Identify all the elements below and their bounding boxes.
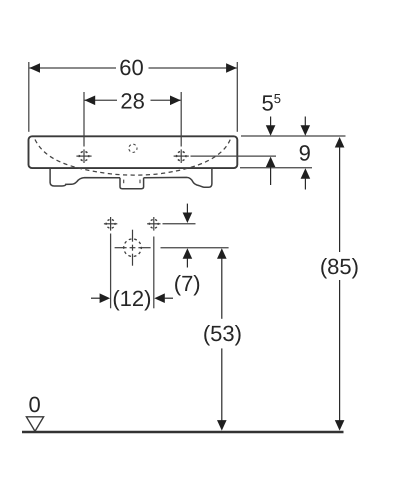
floor line — [22, 431, 344, 434]
dim 28 extension line left — [83, 92, 85, 147]
dim 60 line right segment — [149, 67, 237, 69]
datum triangle — [26, 417, 43, 431]
dim 53 line lower segment — [221, 348, 223, 421]
svg-text:28: 28 — [120, 89, 144, 114]
basin bowl dashed profile — [35, 139, 231, 175]
drain hole centerline horizontal — [115, 247, 151, 249]
dim 12 extension line left — [110, 234, 112, 309]
tap hole leader line — [191, 155, 277, 157]
svg-text:(7): (7) — [174, 271, 201, 296]
rim bottom leader line — [240, 167, 312, 169]
tap hole right crosshair — [174, 149, 189, 163]
drain leader line — [161, 247, 229, 249]
drain hole dashed circle — [124, 239, 142, 257]
basin underside left foot — [50, 169, 120, 187]
dim 28 line left segment — [85, 99, 118, 101]
drain box inner tick left — [123, 180, 125, 184]
dim 12 left arrow — [91, 293, 110, 303]
svg-text:0: 0 — [28, 392, 40, 417]
basin body outline — [29, 136, 238, 168]
dim 7 down arrow — [183, 204, 193, 223]
fixing hole left crosshair — [104, 217, 117, 231]
dim 60 extension line left — [28, 62, 30, 132]
dim 7 up arrow — [183, 248, 193, 267]
svg-text:(12): (12) — [112, 286, 151, 311]
dim 5-5 up arrow — [266, 157, 276, 185]
dim 60 line left segment — [29, 67, 116, 69]
drain hole centerline vertical — [132, 230, 134, 266]
dim 9 down arrow — [301, 117, 311, 136]
rim top leader line — [241, 135, 346, 137]
dim 28 arrow right — [170, 96, 181, 106]
fixing hole leader line — [163, 223, 196, 225]
svg-text:(53): (53) — [203, 321, 242, 346]
dim 12 extension line right — [153, 237, 155, 309]
overflow dashed circle — [129, 144, 137, 152]
dim 12 right arrow — [154, 293, 173, 303]
dim 28 line right segment — [151, 99, 181, 101]
dim 85 line upper segment — [339, 147, 341, 252]
dim 9 up arrow — [301, 168, 311, 189]
dim 60 arrow left — [29, 63, 40, 73]
dim 28 arrow left — [85, 96, 96, 106]
drain box inner tick right — [139, 180, 141, 184]
dim 53 down arrow — [217, 420, 227, 431]
dim 60 extension line right — [236, 62, 238, 132]
svg-text:9: 9 — [299, 141, 311, 166]
dim 28 extension line right — [180, 92, 182, 147]
dim 53 line upper segment — [221, 258, 223, 319]
fixing hole right crosshair — [147, 217, 160, 231]
svg-text:(85): (85) — [320, 254, 359, 279]
dim 5-5 down arrow — [266, 117, 276, 136]
dim 85 up arrow — [335, 137, 345, 148]
basin underside right foot — [144, 169, 212, 188]
svg-text:60: 60 — [119, 55, 143, 80]
tap hole left crosshair — [76, 149, 91, 163]
dim 60 arrow right — [226, 63, 237, 73]
dim 53 up arrow — [217, 248, 227, 258]
svg-text:55: 55 — [262, 91, 281, 116]
drain box — [120, 178, 144, 189]
dim 85 down arrow — [335, 420, 345, 431]
dim 85 line lower segment — [339, 280, 341, 421]
